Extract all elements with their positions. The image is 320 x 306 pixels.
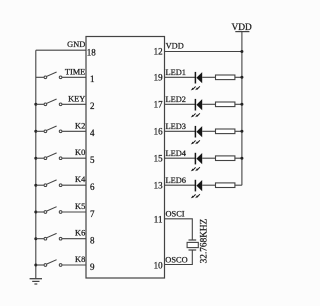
wire LED D4 to resistor R4 [202, 157, 215, 159]
label VDD [166, 42, 184, 51]
switch S7 (K6) [44, 233, 62, 240]
svg-text:LED4: LED4 [166, 149, 187, 158]
junction node K4 on bus [34, 184, 37, 187]
svg-text:OSCI: OSCI [166, 209, 185, 218]
svg-text:LED6: LED6 [166, 176, 186, 185]
switch S1 (TIME) [44, 72, 62, 79]
pin number 10 [154, 260, 164, 270]
svg-text:TIME: TIME [65, 67, 85, 76]
LED D3 (LED3) [191, 126, 202, 145]
svg-text:12: 12 [154, 47, 163, 57]
pin number 4 [90, 128, 95, 138]
label K0 [75, 148, 85, 157]
wire VDD pin 12 to rail [165, 51, 242, 53]
pin number 11 [154, 215, 163, 225]
svg-text:32.768KHZ: 32.768KHZ [200, 218, 210, 263]
label LED4 [166, 149, 187, 158]
label K8 [75, 255, 85, 264]
wire pin 16 to LED D3 [165, 130, 196, 132]
label K6 [75, 229, 85, 238]
pin number 16 [154, 127, 164, 137]
junction node K2 on bus [34, 130, 37, 133]
svg-text:K5: K5 [75, 202, 85, 211]
wire pin 15 to LED D4 [165, 157, 196, 159]
wire pin 13 to LED D5 [165, 184, 196, 186]
wire bus to switch S7 [36, 238, 44, 240]
svg-text:K0: K0 [75, 148, 85, 157]
value label 32.768KHZ [200, 218, 210, 263]
wire bus to switch S1 [36, 76, 44, 78]
svg-text:K4: K4 [75, 175, 86, 184]
junction node VDD [240, 50, 243, 53]
wire bus to switch S8 [36, 264, 44, 266]
wire LED D5 to resistor R5 [202, 184, 215, 186]
wire resistor R3 to VDD rail [235, 130, 242, 132]
svg-text:LED3: LED3 [166, 122, 186, 131]
svg-text:11: 11 [154, 215, 163, 225]
pin number 9 [90, 262, 95, 272]
pin number 19 [154, 73, 164, 83]
crystal Y1 [187, 240, 198, 250]
pin number 13 [154, 180, 164, 190]
resistor R4 [216, 156, 235, 161]
pin number 6 [90, 182, 95, 192]
wire resistor R4 to VDD rail [235, 157, 242, 159]
svg-text:1: 1 [90, 74, 95, 84]
svg-text:13: 13 [154, 180, 164, 190]
wire switch S1 to pin [62, 76, 86, 78]
label GND [67, 40, 85, 49]
resistor R3 [216, 129, 235, 134]
wire pin 19 to LED D1 [165, 76, 196, 78]
label KEY [68, 94, 85, 103]
switch S2 (KEY) [44, 99, 62, 106]
pin number 1 [90, 74, 95, 84]
resistor R1 [216, 75, 235, 80]
svg-text:K6: K6 [75, 229, 85, 238]
junction node LED3 rail [240, 130, 243, 133]
label LED3 [166, 122, 186, 131]
svg-text:KEY: KEY [68, 94, 85, 103]
wire bus to switch S6 [36, 211, 44, 213]
label LED2 [166, 95, 186, 104]
junction node KEY on bus [34, 103, 37, 106]
svg-text:17: 17 [154, 100, 164, 110]
svg-text:LED2: LED2 [166, 95, 186, 104]
wire switch S2 to pin [62, 103, 86, 105]
svg-text:OSCO: OSCO [165, 255, 187, 264]
switch S6 (K5) [44, 207, 62, 214]
wire LED D3 to resistor R3 [202, 130, 215, 132]
junction node LED1 rail [240, 76, 243, 79]
svg-text:LED1: LED1 [166, 68, 186, 77]
svg-text:2: 2 [90, 101, 95, 111]
wire resistor R5 to VDD rail [235, 184, 242, 186]
wire pin 17 to LED D2 [165, 103, 196, 105]
junction node K5 on bus [34, 211, 37, 214]
svg-text:K2: K2 [75, 121, 85, 130]
wire switch S7 to pin [62, 238, 86, 240]
svg-text:18: 18 [87, 47, 97, 57]
wire bus to switch S3 [36, 130, 44, 132]
ground [30, 279, 42, 284]
label LED6 [166, 176, 186, 185]
LED D2 (LED2) [191, 99, 202, 118]
svg-text:6: 6 [90, 182, 95, 192]
resistor R5 [216, 183, 235, 188]
power VDD [231, 23, 252, 33]
svg-text:15: 15 [154, 153, 164, 163]
switch S4 (K0) [44, 153, 62, 160]
svg-text:5: 5 [90, 155, 95, 165]
junction node LED2 rail [240, 103, 243, 106]
wire switch S4 to pin [62, 157, 86, 159]
svg-text:9: 9 [90, 262, 95, 272]
junction node K8 on bus [34, 264, 37, 267]
pin number 7 [90, 209, 95, 219]
switch S3 (K2) [44, 126, 62, 133]
label TIME [65, 67, 85, 76]
wire GND pin 18 [36, 49, 86, 51]
svg-text:19: 19 [154, 73, 164, 83]
pin number 8 [90, 236, 95, 246]
pin number 2 [90, 101, 95, 111]
label OSCO [165, 255, 187, 264]
wire switch S6 to pin [62, 211, 86, 213]
switch S5 (K4) [44, 180, 62, 187]
pin number 12 [154, 47, 163, 57]
wire switch S3 to pin [62, 130, 86, 132]
wire VDD rail [241, 32, 243, 186]
pin number 18 [87, 47, 97, 57]
svg-text:K8: K8 [75, 255, 85, 264]
label LED1 [166, 68, 186, 77]
pin number 15 [154, 153, 164, 163]
svg-text:10: 10 [154, 260, 164, 270]
resistor R2 [216, 102, 235, 107]
wire resistor R1 to VDD rail [235, 76, 242, 78]
wire bus to switch S2 [36, 103, 44, 105]
wire bus to switch S4 [36, 157, 44, 159]
wire left key bus [35, 50, 37, 278]
label K2 [75, 121, 85, 130]
label K5 [75, 202, 85, 211]
wire switch S8 to pin [62, 264, 86, 266]
pin number 5 [90, 155, 95, 165]
LED D4 (LED4) [191, 153, 202, 172]
svg-text:VDD: VDD [166, 42, 184, 51]
LED D1 (LED1) [191, 72, 202, 91]
svg-text:8: 8 [90, 236, 95, 246]
LED D5 (LED6) [191, 180, 202, 199]
svg-text:7: 7 [90, 209, 95, 219]
svg-text:GND: GND [67, 40, 85, 49]
wire bus to switch S5 [36, 184, 44, 186]
label OSCI [166, 209, 185, 218]
junction node LED4 rail [240, 157, 243, 160]
wire OSCO pin 10 [165, 250, 193, 265]
label K4 [75, 175, 86, 184]
junction node K6 on bus [34, 237, 37, 240]
wire resistor R2 to VDD rail [235, 103, 242, 105]
wire LED D2 to resistor R2 [202, 103, 215, 105]
svg-text:4: 4 [90, 128, 95, 138]
junction node K0 on bus [34, 157, 37, 160]
pin number 17 [154, 100, 164, 110]
IC U1 [86, 37, 165, 279]
svg-text:16: 16 [154, 127, 164, 137]
wire OSCI pin 11 [165, 219, 193, 240]
switch S8 (K8) [44, 260, 62, 267]
wire LED D1 to resistor R1 [202, 76, 215, 78]
wire switch S5 to pin [62, 184, 86, 186]
